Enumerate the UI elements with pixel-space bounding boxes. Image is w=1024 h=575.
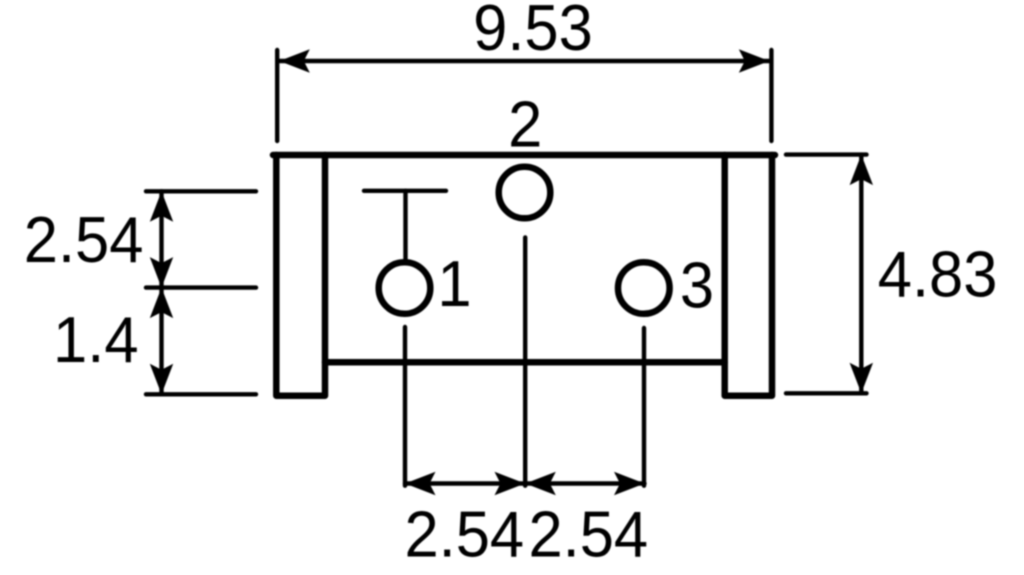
right mounting tab [725, 155, 772, 396]
pin 1 pad circle [379, 262, 431, 314]
arrowhead top dim right [739, 49, 770, 72]
top extension line left [275, 50, 279, 141]
left dimension line [159, 191, 163, 394]
wiper T marker bar [364, 189, 446, 193]
svg-text:9.53: 9.53 [473, 0, 593, 64]
right extension line bottom [786, 391, 867, 395]
svg-text:2.54: 2.54 [528, 499, 648, 571]
svg-text:1.4: 1.4 [53, 304, 138, 376]
svg-text:1: 1 [437, 249, 471, 321]
pin 3 center line [642, 328, 646, 486]
pin 3 pad circle [618, 262, 670, 314]
arrowhead bottom dim mid-left [525, 472, 556, 495]
bottom dimension line [405, 481, 645, 485]
left extension line top [146, 189, 256, 193]
arrowhead bottom dim right-out [614, 472, 645, 495]
svg-text:2: 2 [508, 89, 542, 161]
svg-text:2.54: 2.54 [404, 499, 524, 571]
arrowhead bottom dim left-out [405, 472, 436, 495]
svg-text:2.54: 2.54 [24, 205, 144, 277]
left mounting tab [276, 155, 325, 396]
pin 1 center line [403, 327, 407, 486]
svg-text:3: 3 [680, 250, 714, 322]
arrowhead right dim down [850, 363, 873, 394]
top extension line right [769, 50, 773, 141]
arrowhead left dim up2 [150, 288, 173, 319]
body bottom edge [325, 359, 725, 366]
arrowhead left dim down1 [150, 257, 173, 288]
arrowhead left dim up1 [150, 191, 173, 222]
left extension line bottom [146, 392, 256, 396]
right extension line top [786, 152, 867, 156]
arrowhead right dim up [850, 155, 873, 186]
body top edge [273, 152, 775, 159]
right dimension line [859, 155, 863, 394]
left extension line middle [146, 285, 256, 289]
arrowhead top dim left [279, 49, 310, 72]
pin 2 pad circle [499, 167, 551, 219]
wiper T marker stem [403, 191, 407, 259]
top dimension line [279, 59, 770, 63]
svg-text:4.83: 4.83 [878, 239, 998, 311]
arrowhead bottom dim mid-right [495, 472, 526, 495]
pin 2 center line [523, 237, 527, 485]
arrowhead left dim down2 [150, 364, 173, 395]
